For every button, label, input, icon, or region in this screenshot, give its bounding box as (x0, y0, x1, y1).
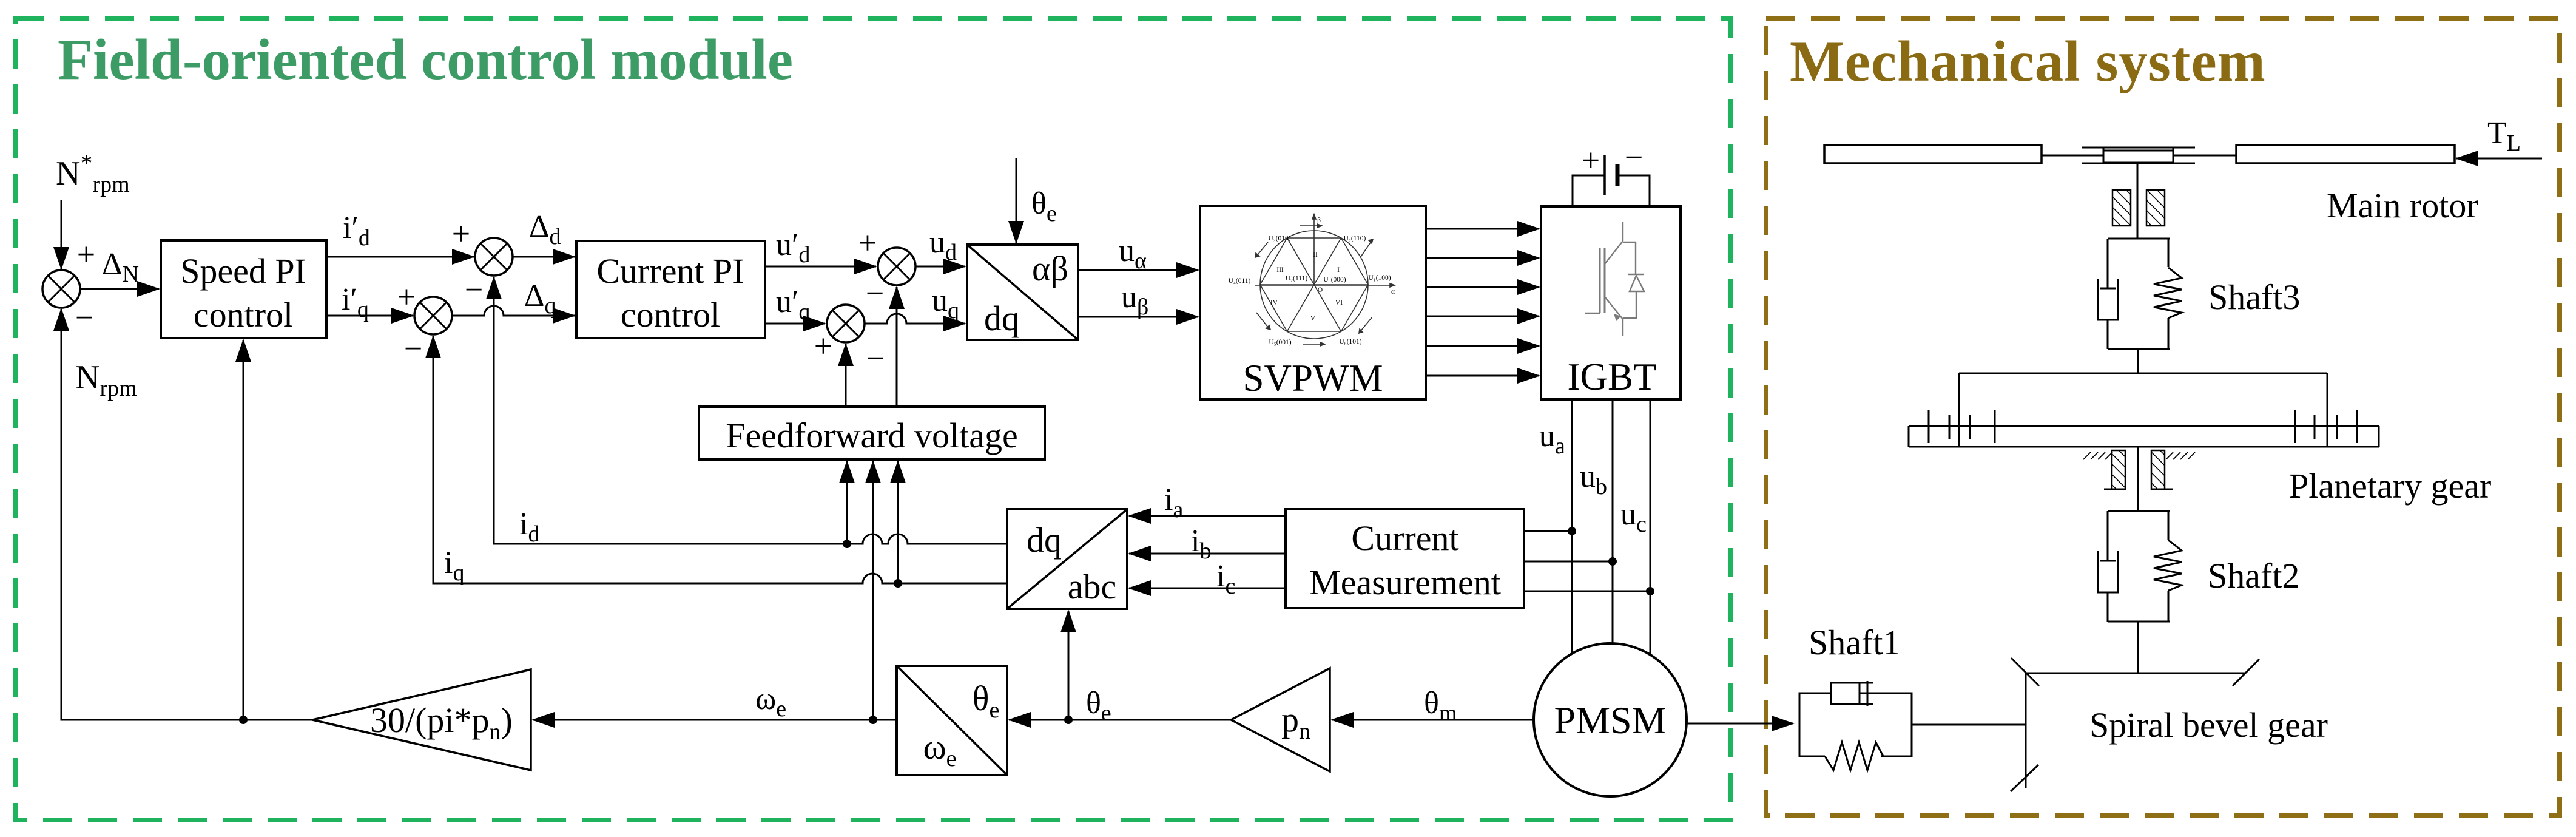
IGBT symbol (1585, 222, 1644, 336)
rotor hub (2042, 147, 2236, 163)
svg-text:−: − (465, 271, 483, 308)
block alphabeta/dq transform (967, 245, 1078, 340)
summing junction delta-d (475, 238, 513, 276)
svg-text:αβ: αβ (1032, 249, 1068, 288)
wire ic (1129, 588, 1286, 589)
svg-text:control: control (621, 295, 720, 334)
block dq/abc transform (1007, 509, 1127, 609)
svg-text:+: + (77, 236, 95, 273)
wire delta-d junction to Current PI (513, 256, 575, 258)
svg-text:abc: abc (1068, 567, 1117, 606)
sun support right (2151, 450, 2195, 489)
svg-text:Speed PI: Speed PI (180, 251, 306, 291)
node iq to feedforward (894, 579, 902, 588)
wire omega-e (533, 719, 897, 721)
svg-text:Shaft3: Shaft3 (2208, 277, 2300, 317)
wire ia (1129, 515, 1286, 517)
sun shaft (2137, 447, 2139, 511)
wire SVPWM to IGBT 2 (1426, 257, 1539, 259)
wire u-beta (1078, 316, 1198, 318)
wire ib (1129, 553, 1286, 555)
svg-text:I: I (1337, 266, 1340, 274)
svg-text:control: control (194, 295, 293, 334)
svg-text:−: − (404, 330, 422, 367)
main rotor right blade (2236, 145, 2455, 163)
Mechanical dashed frame (1766, 19, 2560, 815)
svg-text:+: + (858, 225, 877, 261)
FOC dashed frame (15, 19, 1731, 820)
svg-text:III: III (1276, 266, 1284, 274)
svg-text:−: − (1625, 139, 1643, 175)
wire TL input (2456, 158, 2542, 160)
shaft3 lower link (2137, 349, 2139, 373)
svg-text:Spiral bevel gear: Spiral bevel gear (2089, 705, 2328, 745)
svg-text:−: − (866, 275, 884, 311)
svg-text:U₇(111): U₇(111) (1286, 275, 1308, 282)
svg-text:+: + (1582, 142, 1600, 178)
wire phase a (1571, 399, 1573, 654)
sun support left (2083, 450, 2125, 489)
svg-text:U₁(100): U₁(100) (1368, 274, 1391, 282)
motor PMSM (1534, 643, 1687, 796)
svg-text:Shaft2: Shaft2 (2208, 556, 2299, 595)
wire iq tap to feedforward (897, 461, 899, 583)
wire SVPWM to IGBT 4 (1426, 316, 1539, 317)
svg-text:−: − (866, 340, 885, 376)
node tap c (1646, 587, 1654, 595)
wire feedforward to uq junction (845, 344, 847, 407)
summing junction ud (878, 248, 915, 285)
svg-text:Current PI: Current PI (596, 251, 744, 291)
wire id feedback with hops (494, 277, 1007, 544)
wire SVPWM to IGBT 1 (1426, 228, 1539, 230)
svg-text:SVPWM: SVPWM (1242, 357, 1383, 399)
node omega-e tap (869, 716, 877, 724)
svg-text:V: V (1310, 315, 1316, 322)
wire phase c (1650, 399, 1651, 656)
svg-text:Field-oriented control module: Field-oriented control module (58, 27, 793, 92)
wire measurement tap b (1524, 561, 1613, 563)
wire SVPWM to IGBT 5 (1426, 345, 1539, 347)
shaft3 spring-damper (2098, 239, 2182, 349)
wire uq junction to alphabeta/dq with hop (865, 314, 965, 324)
wire SVPWM to IGBT 6 (1426, 375, 1539, 377)
svg-text:VI: VI (1335, 299, 1343, 307)
svg-text:α: α (1391, 288, 1395, 296)
wire feedforward to ud junction (896, 287, 898, 407)
svg-text:+: + (397, 279, 416, 315)
wire speed junction to Speed PI (80, 288, 159, 290)
wire theta-e from pn (1009, 719, 1231, 721)
block Speed PI control (161, 240, 326, 338)
svg-text:U₅(001): U₅(001) (1269, 339, 1291, 346)
wire i'q (326, 315, 413, 317)
bearing left (2112, 190, 2131, 226)
wire measurement tap a (1524, 530, 1572, 532)
ring gear bar (1909, 426, 2379, 447)
svg-text:II: II (1313, 251, 1318, 259)
wire delta-q junction to Current PI with hop (452, 306, 575, 316)
wire tap to Speed PI bottom (243, 340, 244, 720)
svg-text:U₄(011): U₄(011) (1229, 277, 1251, 285)
wire omega-e to feedforward (872, 461, 874, 720)
block Current Measurement (1286, 509, 1524, 608)
summing junction delta-q (414, 297, 452, 334)
wire iq feedback with hop (433, 336, 1007, 583)
wire N*rpm input (61, 200, 62, 269)
svg-text:Shaft1: Shaft1 (1809, 623, 1900, 662)
shaft1 spring-damper (1799, 681, 1912, 770)
svg-text:Main rotor: Main rotor (2327, 186, 2478, 225)
node speed feedback tap (239, 716, 248, 724)
node tap b (1608, 557, 1617, 566)
svg-text:−: − (75, 299, 93, 336)
wire theta-e into alphabeta/dq (1016, 158, 1017, 243)
wire i'd (326, 256, 474, 258)
DC link source (1573, 175, 1605, 206)
svg-text:Feedforward voltage: Feedforward voltage (726, 416, 1018, 455)
wire shaft1 to bevel gear (1912, 724, 2026, 726)
wire SVPWM to IGBT 3 (1426, 286, 1539, 288)
node id to feedforward (843, 540, 851, 548)
block SVPWM (1200, 206, 1426, 399)
svg-text:+: + (452, 215, 470, 252)
wire ud junction to alphabeta/dq (915, 266, 965, 268)
svg-text:IGBT: IGBT (1568, 356, 1657, 398)
summing junction speed (42, 270, 80, 308)
spiral bevel gear (2011, 658, 2259, 791)
gear mesh left (1929, 410, 1995, 443)
svg-text:Mechanical system: Mechanical system (1790, 29, 2266, 93)
gear mesh right (2295, 410, 2357, 443)
svg-text:IV: IV (1270, 299, 1278, 307)
wire u'd (765, 266, 876, 268)
svg-text:Planetary gear: Planetary gear (2289, 466, 2491, 506)
svg-text:dq: dq (1027, 520, 1062, 560)
svg-text:dq: dq (984, 299, 1019, 338)
block thetae/omegae converter (897, 666, 1007, 775)
wire theta-e to dq/abc (1068, 611, 1070, 720)
wire phase b (1612, 399, 1614, 644)
node theta-e tap (1064, 716, 1073, 724)
wire u'q (765, 323, 825, 325)
wire theta-m (1332, 719, 1534, 721)
main rotor left blade (1824, 145, 2042, 163)
wire id tap to feedforward (846, 461, 848, 544)
gain triangle pn (1231, 668, 1330, 771)
shaft2 spring-damper (2098, 511, 2182, 622)
wire u-alpha (1078, 269, 1198, 271)
node tap a (1568, 527, 1576, 535)
svg-text:+: + (814, 328, 832, 364)
wire measurement tap c (1524, 591, 1650, 592)
svg-text:U₆(101): U₆(101) (1339, 338, 1361, 345)
rotor shaft upper (2137, 163, 2139, 239)
wire PMSM to shaft1 (1687, 723, 1793, 725)
svg-text:O: O (1318, 286, 1323, 294)
svg-text:U₂(110): U₂(110) (1344, 235, 1366, 242)
SVPWM space-vector diagram (1255, 214, 1395, 346)
svg-text:U₀(000): U₀(000) (1323, 276, 1346, 283)
gain triangle 30/(pi*pn) (312, 669, 531, 770)
bearing right (2146, 190, 2165, 226)
wire Nrpm feedback (61, 309, 312, 720)
summing junction uq (827, 305, 865, 342)
planet carrier (1959, 373, 2327, 447)
svg-text:Current: Current (1351, 518, 1458, 558)
block Feedforward voltage (699, 407, 1045, 459)
svg-text:β: β (1317, 217, 1321, 224)
svg-text:U₃(010): U₃(010) (1268, 235, 1290, 242)
svg-text:PMSM: PMSM (1554, 699, 1667, 742)
block IGBT (1541, 206, 1681, 399)
block Current PI control (576, 241, 765, 338)
shaft2 lower link (2137, 622, 2139, 673)
svg-text:Measurement: Measurement (1309, 563, 1501, 602)
